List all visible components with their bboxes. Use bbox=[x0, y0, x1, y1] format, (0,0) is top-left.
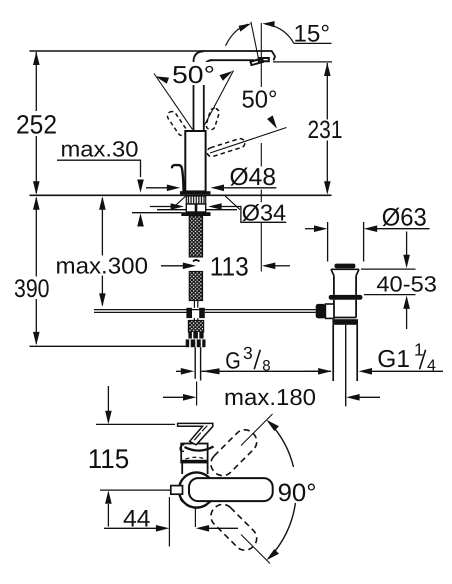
50deg right upper leader line bbox=[205, 71, 234, 126]
dashed spout down position bbox=[206, 500, 261, 555]
spout neck outer bend bbox=[194, 51, 205, 131]
dashed lever left bbox=[166, 110, 189, 137]
svg-text:115: 115 bbox=[88, 444, 130, 474]
dimension 113 right arrow bbox=[275, 265, 290, 267]
drain flange bbox=[331, 269, 359, 275]
40-53 extension lines bbox=[361, 269, 416, 295]
dimension 252 line bbox=[35, 52, 37, 193]
faucet centerline extension bbox=[196, 382, 198, 406]
faucet body bbox=[185, 131, 205, 191]
max.30 underline bbox=[57, 160, 141, 177]
hose lower segment bbox=[189, 272, 202, 301]
stem left hook bbox=[180, 445, 184, 452]
svg-text:113: 113 bbox=[210, 251, 249, 281]
max.30 up arrowhead below counter bbox=[140, 224, 142, 226]
dimension G3/8 arrows bbox=[176, 370, 331, 372]
dimension 231 line bbox=[326, 63, 328, 193]
spout vertical centerline bbox=[260, 23, 262, 272]
svg-text:15°: 15° bbox=[294, 20, 331, 47]
dimension 390 top arrowhead bbox=[33, 196, 40, 209]
svg-text:Ø34: Ø34 bbox=[242, 199, 287, 225]
svg-text:1: 1 bbox=[414, 340, 424, 360]
drain tailpipe bbox=[333, 325, 357, 381]
50deg left arrowhead bbox=[155, 76, 169, 84]
G3/8 thread tails bbox=[195, 347, 200, 380]
svg-text:44: 44 bbox=[123, 505, 151, 532]
drain body upper bbox=[334, 276, 356, 295]
O63 extension lines bbox=[328, 222, 364, 262]
svg-text:Ø63: Ø63 bbox=[382, 204, 427, 232]
counter hatch left bbox=[171, 195, 187, 209]
spout neck inner bend bbox=[204, 60, 213, 131]
pop-up hook lever bbox=[172, 165, 184, 192]
15deg left arc bbox=[226, 24, 249, 46]
dimension O34 right arrow and step leader bbox=[222, 207, 287, 223]
mounting nut bbox=[181, 212, 210, 216]
hose stem to clamp bbox=[194, 301, 197, 321]
50deg right lower arrowhead bbox=[267, 115, 277, 128]
svg-text:8: 8 bbox=[262, 357, 270, 374]
svg-text:Ø48: Ø48 bbox=[230, 164, 277, 191]
swivel axis line lower bbox=[241, 535, 270, 564]
dimension 252 top arrowhead bbox=[33, 52, 40, 65]
stem bottom thick edge bbox=[181, 460, 207, 463]
rod clamp right block bbox=[199, 308, 205, 318]
spout outline bbox=[200, 51, 275, 60]
dimension 115 top arrow bbox=[107, 386, 109, 411]
max.30 down arrowhead bbox=[137, 180, 144, 193]
dimension 113 left arrow bbox=[161, 265, 184, 267]
spout tilted centerline bbox=[251, 22, 259, 59]
rod knob bbox=[316, 304, 326, 319]
lever stem top view bbox=[181, 444, 207, 463]
390 bottom reference line bbox=[30, 345, 187, 347]
spout top extension line bbox=[30, 50, 201, 52]
aerator tilted 15 bbox=[251, 59, 264, 66]
drain tailpipe seam bbox=[345, 325, 347, 407]
rod clamp left block bbox=[186, 308, 192, 318]
15deg underline bbox=[294, 42, 332, 44]
15deg right arc bbox=[266, 24, 294, 43]
15deg right arrowhead bbox=[262, 21, 274, 27]
drain washer bbox=[329, 295, 363, 300]
paddle slash marks bbox=[194, 426, 207, 441]
svg-text:4: 4 bbox=[427, 357, 436, 374]
44 extension line left bbox=[168, 497, 170, 547]
dimension 390 bottom arrowhead bbox=[33, 332, 40, 345]
50deg right upper arrowhead bbox=[220, 71, 233, 81]
svg-text:G1: G1 bbox=[377, 346, 410, 373]
44 extension line right bbox=[194, 503, 196, 527]
svg-text:max.300: max.300 bbox=[56, 252, 149, 278]
dimension 231 bottom arrowhead bbox=[324, 181, 331, 194]
connector nut G3/8 bbox=[186, 339, 206, 347]
dashed lever upper right bbox=[205, 107, 220, 131]
dimension O48 right arrow and underline bbox=[224, 187, 276, 189]
lever lower-right axis line bbox=[210, 128, 287, 154]
svg-text:3: 3 bbox=[243, 343, 253, 363]
max.300 bottom arrowhead bbox=[99, 293, 106, 306]
dashed lever lower right bbox=[206, 137, 246, 157]
nut top reference line bbox=[132, 212, 181, 214]
90deg arc lower bbox=[269, 503, 296, 559]
svg-text:390: 390 bbox=[14, 275, 50, 303]
hose break mark bbox=[193, 260, 200, 262]
aerator extension line bbox=[273, 61, 332, 63]
svg-text:max.30: max.30 bbox=[61, 136, 139, 161]
stem sides below bbox=[182, 463, 207, 474]
15deg left arrowhead bbox=[239, 23, 252, 31]
dashed spout up position bbox=[206, 425, 261, 480]
spout top view bbox=[189, 478, 273, 501]
ball joint arc bbox=[185, 447, 214, 451]
dimension 115 bottom arrow bbox=[107, 504, 109, 527]
rod knob housing bbox=[325, 304, 334, 318]
threaded shank bbox=[186, 196, 205, 204]
max.300 top arrowhead bbox=[99, 196, 106, 209]
pop-up rod bbox=[94, 310, 316, 313]
svg-text:G: G bbox=[225, 348, 241, 374]
lever paddle top view bbox=[178, 423, 213, 444]
countertop top line bbox=[30, 194, 332, 196]
drain plug cap bbox=[335, 264, 356, 269]
dimension G1 1/4 arrows bbox=[318, 368, 331, 375]
40-53 bottom arrow bbox=[406, 309, 408, 329]
aerator straight bbox=[259, 58, 269, 61]
hose upper segment bbox=[189, 216, 202, 257]
90deg arc upper bbox=[269, 422, 294, 468]
swivel axis line upper bbox=[241, 414, 273, 446]
faucet body circle top view bbox=[179, 472, 214, 507]
dimension max.180 bbox=[163, 396, 183, 398]
dimension max.300 line bbox=[101, 198, 103, 305]
base plate bbox=[180, 191, 211, 194]
body circle dashed arc bbox=[180, 499, 213, 509]
drain body lower bbox=[334, 300, 356, 318]
dimension O48 left arrow bbox=[146, 187, 168, 189]
connector braid block bbox=[188, 321, 203, 333]
svg-text:40-53: 40-53 bbox=[376, 272, 437, 297]
50deg left leader line bbox=[154, 74, 193, 130]
dimension 252 bottom arrowhead bbox=[33, 181, 40, 194]
shank center seam bbox=[195, 204, 198, 212]
knob tab top view bbox=[171, 486, 183, 495]
svg-text:50°: 50° bbox=[242, 87, 278, 114]
countertop bottom line bbox=[157, 209, 237, 211]
O63 dimension arrows bbox=[305, 228, 315, 230]
svg-text:90°: 90° bbox=[278, 479, 317, 507]
center reference line bbox=[100, 489, 171, 491]
drain coupling nut bbox=[332, 319, 358, 325]
counter hatch right bbox=[225, 195, 241, 209]
svg-text:231: 231 bbox=[308, 116, 343, 144]
dimension 390 line bbox=[35, 198, 37, 344]
svg-text:252: 252 bbox=[16, 109, 57, 139]
connector band bbox=[188, 332, 203, 339]
90deg arc lower arrowhead bbox=[266, 549, 279, 560]
svg-text:max.180: max.180 bbox=[224, 384, 316, 410]
lever top reference line bbox=[96, 423, 175, 425]
dimension 44 bbox=[104, 527, 157, 529]
dimension O34 left arrow bbox=[150, 206, 171, 208]
shank lower body bbox=[186, 204, 205, 212]
svg-text:50°: 50° bbox=[172, 62, 215, 89]
stem dashed arc bbox=[186, 457, 205, 459]
40-53 top arrow bbox=[406, 232, 408, 256]
label 50deg left halo bbox=[170, 62, 218, 85]
90deg arc upper arrowhead bbox=[266, 420, 279, 431]
dimension 231 top arrowhead bbox=[324, 63, 331, 76]
